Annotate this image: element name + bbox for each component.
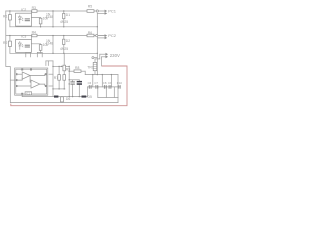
svg-text:PC1: PC1 [108, 8, 117, 13]
svg-text:R2: R2 [3, 41, 7, 45]
svg-text:IC1: IC1 [26, 92, 31, 96]
svg-text:D2: D2 [66, 39, 70, 43]
svg-text:R1: R1 [3, 14, 7, 18]
svg-text:R5: R5 [88, 5, 92, 9]
svg-text:TR1: TR1 [87, 65, 94, 69]
svg-text:C9: C9 [108, 81, 112, 85]
svg-text:4N25: 4N25 [60, 47, 68, 51]
svg-text:R8: R8 [75, 66, 79, 70]
svg-text:10k: 10k [43, 17, 49, 21]
svg-text:D1: D1 [66, 13, 70, 17]
svg-text:C6: C6 [88, 81, 92, 85]
svg-text:230V: 230V [110, 53, 120, 58]
svg-text:R3: R3 [32, 6, 36, 10]
svg-text:IC3: IC3 [21, 34, 26, 38]
svg-text:R6: R6 [88, 31, 92, 35]
svg-text:C8: C8 [103, 81, 107, 85]
svg-text:R4: R4 [32, 31, 36, 35]
svg-text:R9: R9 [66, 68, 70, 72]
svg-text:4N25: 4N25 [60, 20, 68, 24]
svg-text:D5: D5 [88, 95, 92, 99]
svg-text:PC2: PC2 [108, 33, 117, 38]
svg-text:D6: D6 [66, 97, 70, 101]
svg-text:R10: R10 [117, 81, 123, 85]
svg-text:C7: C7 [94, 81, 98, 85]
svg-text:R7: R7 [54, 76, 58, 80]
svg-text:IC2: IC2 [21, 8, 26, 12]
svg-text:10k: 10k [43, 43, 49, 47]
